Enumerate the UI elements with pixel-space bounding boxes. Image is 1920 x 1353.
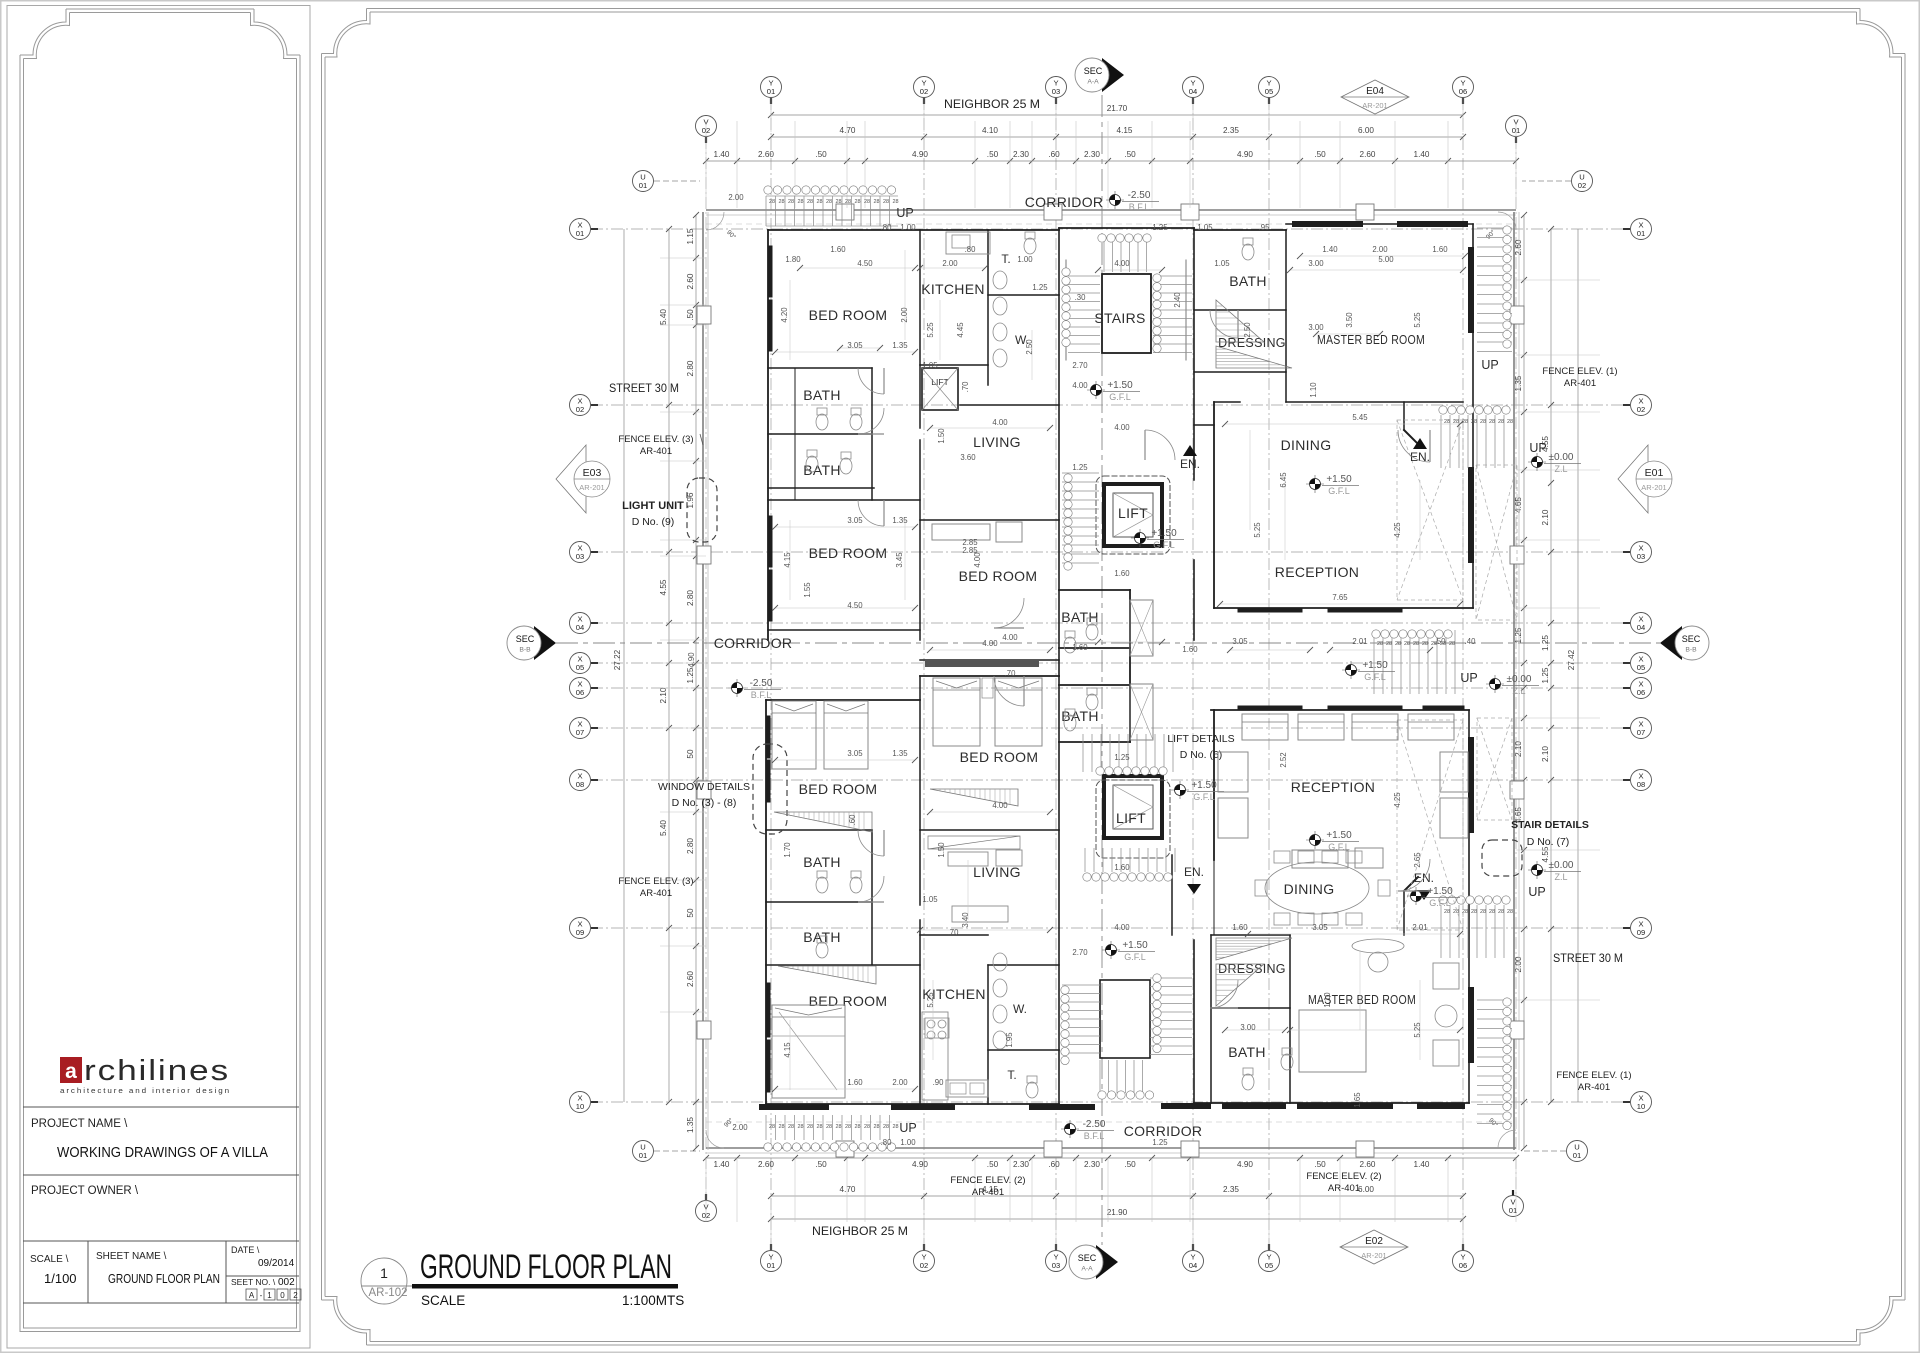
svg-text:GROUND FLOOR PLAN: GROUND FLOOR PLAN xyxy=(108,1272,220,1286)
svg-text:2.00: 2.00 xyxy=(1372,245,1388,254)
svg-text:B.F.L: B.F.L xyxy=(1084,1131,1105,1141)
svg-text:1.50: 1.50 xyxy=(937,842,946,858)
svg-text:E04: E04 xyxy=(1366,86,1384,97)
svg-text:2.85: 2.85 xyxy=(962,546,978,555)
svg-text:FENCE ELEV. (2): FENCE ELEV. (2) xyxy=(950,1175,1025,1186)
svg-text:1.40: 1.40 xyxy=(1414,150,1430,159)
svg-text:1.60: 1.60 xyxy=(1072,643,1088,652)
svg-text:-2.50: -2.50 xyxy=(1128,190,1151,201)
svg-text:3.50: 3.50 xyxy=(1345,312,1354,328)
svg-text:T.: T. xyxy=(1001,252,1010,266)
svg-text:BATH: BATH xyxy=(803,462,841,478)
svg-text:09: 09 xyxy=(576,928,584,937)
svg-text:28: 28 xyxy=(797,199,803,205)
svg-text:2.01: 2.01 xyxy=(1412,923,1427,932)
svg-text:2.60: 2.60 xyxy=(758,150,774,159)
svg-text:02: 02 xyxy=(1637,405,1645,414)
svg-text:.30: .30 xyxy=(1075,293,1087,302)
svg-text:SHEET NAME \: SHEET NAME \ xyxy=(96,1251,167,1262)
svg-text:50: 50 xyxy=(686,749,695,759)
svg-text:Z.L: Z.L xyxy=(1512,686,1525,696)
svg-text:LIFT: LIFT xyxy=(1118,505,1148,521)
svg-text:2.00: 2.00 xyxy=(900,307,909,323)
svg-text:1.70: 1.70 xyxy=(783,842,792,858)
svg-text:FENCE ELEV. (3): FENCE ELEV. (3) xyxy=(618,434,693,445)
svg-text:UP: UP xyxy=(1460,671,1477,685)
svg-text:3.00: 3.00 xyxy=(1240,1023,1256,1032)
svg-text:.70: .70 xyxy=(948,928,960,937)
svg-text:D No. (7): D No. (7) xyxy=(1527,836,1570,848)
svg-text:4.10: 4.10 xyxy=(982,126,998,135)
svg-text:BATH: BATH xyxy=(803,929,841,945)
svg-text:AR-401: AR-401 xyxy=(1564,378,1596,389)
svg-text:SEET NO. \: SEET NO. \ xyxy=(231,1277,276,1287)
svg-text:Z.L: Z.L xyxy=(1554,872,1567,882)
svg-text:RECEPTION: RECEPTION xyxy=(1291,779,1375,795)
svg-text:50: 50 xyxy=(686,908,695,918)
svg-text:1.05: 1.05 xyxy=(922,361,938,370)
svg-text:4.00: 4.00 xyxy=(1114,259,1130,268)
svg-text:4.90: 4.90 xyxy=(1237,150,1253,159)
svg-text:B.F.L: B.F.L xyxy=(751,690,772,700)
svg-text:28: 28 xyxy=(816,199,822,205)
svg-text:DINING: DINING xyxy=(1284,881,1335,897)
svg-text:07: 07 xyxy=(1637,728,1645,737)
svg-text:4.45: 4.45 xyxy=(956,322,965,338)
svg-text:06: 06 xyxy=(1637,688,1645,697)
svg-text:1.25: 1.25 xyxy=(1032,283,1048,292)
svg-text:03: 03 xyxy=(576,552,584,561)
svg-text:2.30: 2.30 xyxy=(1084,150,1100,159)
svg-text:03: 03 xyxy=(1052,87,1060,96)
svg-text:1.40: 1.40 xyxy=(714,150,730,159)
svg-text:1.60: 1.60 xyxy=(1432,245,1448,254)
svg-text:1.35: 1.35 xyxy=(892,516,908,525)
svg-text:4.15: 4.15 xyxy=(1117,126,1133,135)
svg-text:4.00: 4.00 xyxy=(992,801,1008,810)
svg-text:05: 05 xyxy=(1265,1261,1273,1270)
svg-text:BATH: BATH xyxy=(803,387,841,403)
svg-text:4.00: 4.00 xyxy=(1072,381,1088,390)
svg-text:01: 01 xyxy=(1573,1151,1581,1160)
svg-text:4.55: 4.55 xyxy=(659,579,668,595)
svg-text:BED ROOM: BED ROOM xyxy=(809,307,888,323)
svg-text:D No. (6): D No. (6) xyxy=(1180,749,1223,761)
svg-text:WINDOW DETAILS: WINDOW DETAILS xyxy=(658,781,750,793)
svg-text:1.35: 1.35 xyxy=(1514,375,1523,391)
svg-text:1.35: 1.35 xyxy=(892,341,908,350)
svg-text:02: 02 xyxy=(920,1261,928,1270)
svg-text:1.25: 1.25 xyxy=(1152,1138,1168,1147)
svg-text:.50: .50 xyxy=(1314,1160,1326,1169)
svg-text:.60: .60 xyxy=(848,814,857,826)
svg-text:28: 28 xyxy=(1489,909,1495,915)
svg-text:2.01: 2.01 xyxy=(1352,637,1367,646)
svg-text:01: 01 xyxy=(1637,229,1645,238)
svg-text:.70: .70 xyxy=(1005,669,1017,678)
svg-text:+1.50: +1.50 xyxy=(1326,474,1352,485)
svg-text:±0.00: ±0.00 xyxy=(1507,674,1532,685)
svg-text:NEIGHBOR 25 M: NEIGHBOR 25 M xyxy=(944,97,1040,111)
svg-text:27.42: 27.42 xyxy=(1567,649,1576,670)
svg-text:21.70: 21.70 xyxy=(1107,104,1128,113)
svg-text:AR-201: AR-201 xyxy=(579,483,604,492)
svg-text:1.60: 1.60 xyxy=(1182,645,1198,654)
svg-text:06: 06 xyxy=(1459,87,1467,96)
svg-text:.50: .50 xyxy=(987,1160,999,1169)
svg-text:28: 28 xyxy=(778,1124,784,1130)
svg-text:28: 28 xyxy=(854,1124,860,1130)
svg-text:D No. (9): D No. (9) xyxy=(632,516,675,528)
svg-text:4.00: 4.00 xyxy=(1002,633,1018,642)
svg-text:28: 28 xyxy=(1507,419,1513,425)
svg-text:06: 06 xyxy=(1459,1261,1467,1270)
svg-text:+1.50: +1.50 xyxy=(1107,380,1133,391)
svg-text:03: 03 xyxy=(1052,1261,1060,1270)
svg-text:GROUND FLOOR PLAN: GROUND FLOOR PLAN xyxy=(420,1248,672,1286)
svg-text:KITCHEN: KITCHEN xyxy=(921,281,985,297)
svg-text:4.00: 4.00 xyxy=(1114,923,1130,932)
svg-text:SCALE \: SCALE \ xyxy=(30,1254,69,1265)
svg-text:AR-401: AR-401 xyxy=(972,1187,1004,1198)
svg-text:1: 1 xyxy=(380,1265,388,1281)
svg-text:6.45: 6.45 xyxy=(1279,472,1288,488)
svg-text:28: 28 xyxy=(1471,419,1477,425)
svg-text:2.65: 2.65 xyxy=(1413,852,1422,868)
svg-text:±0.00: ±0.00 xyxy=(1549,452,1574,463)
svg-text:02: 02 xyxy=(920,87,928,96)
svg-text:28: 28 xyxy=(873,199,879,205)
svg-text:03: 03 xyxy=(1637,552,1645,561)
svg-text:1.25: 1.25 xyxy=(686,667,695,683)
svg-text:4.90: 4.90 xyxy=(912,150,928,159)
svg-text:.80: .80 xyxy=(881,223,893,232)
svg-text:.50: .50 xyxy=(686,309,695,321)
svg-text:2.40: 2.40 xyxy=(1173,292,1182,308)
svg-text:002: 002 xyxy=(278,1277,295,1288)
svg-text:.70: .70 xyxy=(961,381,970,393)
svg-text:3.05: 3.05 xyxy=(1312,923,1328,932)
svg-text:3.00: 3.00 xyxy=(1308,323,1324,332)
svg-text:architecture and interior desi: architecture and interior design xyxy=(60,1086,231,1095)
svg-text:28: 28 xyxy=(778,199,784,205)
svg-text:5.25: 5.25 xyxy=(926,322,935,338)
svg-text:.50: .50 xyxy=(815,150,827,159)
svg-text:A: A xyxy=(249,1291,255,1300)
svg-text:AR-401: AR-401 xyxy=(640,446,672,457)
svg-text:AR-401: AR-401 xyxy=(640,888,672,899)
svg-text:5.40: 5.40 xyxy=(659,820,668,836)
svg-text:3.05: 3.05 xyxy=(847,516,863,525)
svg-text:2.35: 2.35 xyxy=(1223,126,1239,135)
svg-text:28: 28 xyxy=(835,199,841,205)
svg-text:A-A: A-A xyxy=(1081,1266,1093,1273)
svg-text:.60: .60 xyxy=(1048,1160,1060,1169)
svg-text:1.15: 1.15 xyxy=(686,228,695,244)
svg-text:DRESSING: DRESSING xyxy=(1218,336,1286,350)
svg-text:a: a xyxy=(65,1060,77,1083)
svg-text:+1.50: +1.50 xyxy=(1151,528,1177,539)
svg-text:1.40: 1.40 xyxy=(714,1160,730,1169)
svg-text:28: 28 xyxy=(1471,909,1477,915)
svg-text:28: 28 xyxy=(1480,419,1486,425)
svg-text:1.50: 1.50 xyxy=(937,428,946,444)
svg-text:BATH: BATH xyxy=(1229,273,1267,289)
svg-text:4.90: 4.90 xyxy=(912,1160,928,1169)
svg-text:2.80: 2.80 xyxy=(686,590,695,606)
svg-text:E03: E03 xyxy=(583,467,602,479)
svg-text:+1.50: +1.50 xyxy=(1427,886,1453,897)
svg-text:04: 04 xyxy=(1189,1261,1197,1270)
svg-text:G.F.L: G.F.L xyxy=(1109,392,1131,402)
svg-text:FENCE ELEV. (2): FENCE ELEV. (2) xyxy=(1306,1171,1381,1182)
svg-text:1.40: 1.40 xyxy=(1414,1160,1430,1169)
svg-text:4.90: 4.90 xyxy=(687,652,696,668)
svg-text:1:100MTS: 1:100MTS xyxy=(622,1293,684,1308)
svg-text:PROJECT OWNER \: PROJECT OWNER \ xyxy=(31,1185,139,1197)
svg-text:28: 28 xyxy=(1498,419,1504,425)
svg-text:W.: W. xyxy=(1013,1002,1027,1016)
svg-text:2.30: 2.30 xyxy=(1013,150,1029,159)
svg-text:3.05: 3.05 xyxy=(1232,637,1248,646)
svg-text:28: 28 xyxy=(892,199,898,205)
svg-text:2.70: 2.70 xyxy=(1072,361,1088,370)
svg-text:UP: UP xyxy=(1529,441,1546,455)
svg-text:1.60: 1.60 xyxy=(1114,569,1130,578)
svg-text:UP: UP xyxy=(1481,358,1498,372)
svg-text:05: 05 xyxy=(576,663,584,672)
svg-text:4.65: 4.65 xyxy=(1514,497,1523,513)
svg-text:G.F.L: G.F.L xyxy=(1193,792,1215,802)
svg-text:1.25: 1.25 xyxy=(1541,635,1550,651)
svg-text:04: 04 xyxy=(1189,87,1197,96)
svg-text:rchilines: rchilines xyxy=(84,1055,230,1087)
svg-text:1.25: 1.25 xyxy=(1541,667,1550,683)
svg-text:28: 28 xyxy=(826,199,832,205)
svg-text:3.05: 3.05 xyxy=(847,749,863,758)
svg-text:2.10: 2.10 xyxy=(1514,741,1523,757)
svg-text:BED ROOM: BED ROOM xyxy=(799,781,878,797)
svg-text:G.F.L: G.F.L xyxy=(1364,672,1386,682)
svg-text:BED ROOM: BED ROOM xyxy=(959,568,1038,584)
svg-text:STAIR DETAILS: STAIR DETAILS xyxy=(1511,819,1589,831)
svg-text:28: 28 xyxy=(788,199,794,205)
svg-text:STAIRS: STAIRS xyxy=(1094,310,1145,326)
svg-text:BATH: BATH xyxy=(1061,609,1099,625)
svg-text:2.80: 2.80 xyxy=(686,360,695,376)
svg-text:28: 28 xyxy=(788,1124,794,1130)
svg-text:09: 09 xyxy=(1637,928,1645,937)
svg-text:28: 28 xyxy=(816,1124,822,1130)
svg-text:21.90: 21.90 xyxy=(1107,1208,1128,1217)
svg-text:FENCE ELEV. (1): FENCE ELEV. (1) xyxy=(1542,366,1617,377)
svg-text:4.25: 4.25 xyxy=(1393,792,1402,808)
svg-text:28: 28 xyxy=(845,1124,851,1130)
svg-text:.50: .50 xyxy=(1124,150,1136,159)
svg-text:01: 01 xyxy=(576,229,584,238)
svg-text:BED ROOM: BED ROOM xyxy=(960,749,1039,765)
svg-text:05: 05 xyxy=(1265,87,1273,96)
svg-text:28: 28 xyxy=(1444,909,1450,915)
svg-text:1.80: 1.80 xyxy=(785,255,801,264)
svg-text:28: 28 xyxy=(864,199,870,205)
svg-text:LIGHT UNIT: LIGHT UNIT xyxy=(622,500,684,512)
svg-text:1.25: 1.25 xyxy=(1072,463,1088,472)
svg-text:2.30: 2.30 xyxy=(1084,1160,1100,1169)
svg-text:E02: E02 xyxy=(1365,1236,1383,1247)
svg-text:CORRIDOR: CORRIDOR xyxy=(1124,1123,1203,1139)
svg-text:4.25: 4.25 xyxy=(1393,522,1402,538)
svg-text:PROJECT NAME \: PROJECT NAME \ xyxy=(31,1118,128,1130)
svg-text:BATH: BATH xyxy=(803,854,841,870)
svg-text:.50: .50 xyxy=(1435,637,1447,646)
svg-text:.80: .80 xyxy=(965,245,977,254)
svg-text:-2.50: -2.50 xyxy=(750,678,773,689)
svg-text:.50: .50 xyxy=(987,150,999,159)
svg-text:STREET 30 M: STREET 30 M xyxy=(1553,951,1623,965)
svg-text:LIFT DETAILS: LIFT DETAILS xyxy=(1167,733,1234,745)
svg-text:BATH: BATH xyxy=(1228,1044,1266,1060)
svg-text:B-B: B-B xyxy=(519,647,531,654)
svg-text:1.05: 1.05 xyxy=(1197,223,1213,232)
svg-text:G.F.L: G.F.L xyxy=(1153,540,1175,550)
svg-text:2.60: 2.60 xyxy=(1514,239,1523,255)
svg-text:28: 28 xyxy=(807,199,813,205)
svg-text:28: 28 xyxy=(797,1124,803,1130)
svg-text:B.F.L: B.F.L xyxy=(1129,202,1150,212)
svg-text:28: 28 xyxy=(1449,641,1455,647)
svg-text:28: 28 xyxy=(1386,641,1392,647)
svg-text:4.20: 4.20 xyxy=(780,307,789,323)
svg-text:28: 28 xyxy=(873,1124,879,1130)
svg-text:28: 28 xyxy=(854,199,860,205)
svg-text:05: 05 xyxy=(1637,663,1645,672)
svg-text:2.10: 2.10 xyxy=(1541,509,1550,525)
svg-text:DINING: DINING xyxy=(1281,437,1332,453)
svg-text:1.25: 1.25 xyxy=(1114,753,1130,762)
svg-text:28: 28 xyxy=(883,1124,889,1130)
svg-text:UP: UP xyxy=(896,206,913,220)
svg-text:+1.50: +1.50 xyxy=(1326,830,1352,841)
svg-text:.80: .80 xyxy=(881,1138,893,1147)
svg-text:BED ROOM: BED ROOM xyxy=(809,993,888,1009)
svg-text:28: 28 xyxy=(1480,909,1486,915)
svg-text:1.05: 1.05 xyxy=(922,895,938,904)
svg-text:.50: .50 xyxy=(1314,150,1326,159)
svg-text:Z.L: Z.L xyxy=(1554,464,1567,474)
svg-text:-: - xyxy=(260,1291,263,1300)
svg-text:4.70: 4.70 xyxy=(840,1185,856,1194)
svg-text:A-A: A-A xyxy=(1087,79,1099,86)
svg-text:.90: .90 xyxy=(933,1078,945,1087)
svg-text:.50: .50 xyxy=(1124,1160,1136,1169)
svg-text:1.60: 1.60 xyxy=(1114,863,1130,872)
svg-text:1.25: 1.25 xyxy=(1152,223,1168,232)
svg-text:27.22: 27.22 xyxy=(613,649,622,670)
svg-text:SCALE: SCALE xyxy=(421,1293,465,1308)
svg-text:06: 06 xyxy=(576,688,584,697)
svg-text:G.F.L: G.F.L xyxy=(1429,898,1451,908)
svg-text:2.60: 2.60 xyxy=(758,1160,774,1169)
svg-text:4.50: 4.50 xyxy=(857,259,873,268)
svg-text:E01: E01 xyxy=(1645,467,1664,479)
svg-text:2.00: 2.00 xyxy=(942,259,958,268)
svg-text:LIFT: LIFT xyxy=(1116,810,1146,826)
svg-text:28: 28 xyxy=(864,1124,870,1130)
svg-text:1/100: 1/100 xyxy=(44,1271,77,1286)
svg-text:4.00: 4.00 xyxy=(982,639,998,648)
svg-text:1: 1 xyxy=(267,1291,272,1300)
svg-text:02: 02 xyxy=(576,405,584,414)
svg-text:1.00: 1.00 xyxy=(900,223,916,232)
svg-text:1.10: 1.10 xyxy=(1323,992,1332,1008)
svg-text:4.15: 4.15 xyxy=(783,1042,792,1058)
svg-text:2.60: 2.60 xyxy=(1360,1160,1376,1169)
svg-text:28: 28 xyxy=(1413,641,1419,647)
svg-text:28: 28 xyxy=(1489,419,1495,425)
svg-text:.60: .60 xyxy=(1048,150,1060,159)
svg-text:SEC: SEC xyxy=(516,634,535,644)
svg-text:07: 07 xyxy=(576,728,584,737)
svg-text:1.60: 1.60 xyxy=(1232,923,1248,932)
svg-text:5.25: 5.25 xyxy=(1253,522,1262,538)
svg-text:10: 10 xyxy=(1637,1102,1645,1111)
svg-text:3.40: 3.40 xyxy=(961,912,970,928)
svg-text:FENCE ELEV. (1): FENCE ELEV. (1) xyxy=(1556,1070,1631,1081)
svg-text:28: 28 xyxy=(883,199,889,205)
svg-text:02: 02 xyxy=(1578,181,1586,190)
svg-text:2.00: 2.00 xyxy=(732,1123,748,1132)
svg-text:EN.: EN. xyxy=(1184,865,1204,879)
svg-text:1.65: 1.65 xyxy=(1353,1092,1362,1108)
svg-text:1.05: 1.05 xyxy=(1214,259,1230,268)
svg-text:1.95: 1.95 xyxy=(1005,1032,1014,1048)
svg-text:2.50: 2.50 xyxy=(1243,322,1252,338)
svg-text:01: 01 xyxy=(767,1261,775,1270)
svg-text:1.40: 1.40 xyxy=(1322,245,1338,254)
svg-text:BED ROOM: BED ROOM xyxy=(809,545,888,561)
svg-text:2.00: 2.00 xyxy=(728,193,744,202)
svg-text:-2.50: -2.50 xyxy=(1083,1119,1106,1130)
svg-text:5.25: 5.25 xyxy=(926,992,935,1008)
svg-text:G.F.L: G.F.L xyxy=(1124,952,1146,962)
svg-text:4.50: 4.50 xyxy=(847,601,863,610)
svg-text:2.60: 2.60 xyxy=(686,971,695,987)
svg-text:B-B: B-B xyxy=(1685,647,1697,654)
svg-text:28: 28 xyxy=(826,1124,832,1130)
svg-text:+1.50: +1.50 xyxy=(1122,940,1148,951)
svg-text:AR-201: AR-201 xyxy=(1361,1251,1386,1260)
svg-text:1.10: 1.10 xyxy=(1309,382,1318,398)
svg-text:28: 28 xyxy=(1498,909,1504,915)
svg-text:28: 28 xyxy=(1377,641,1383,647)
svg-text:28: 28 xyxy=(1507,909,1513,915)
svg-text:2.10: 2.10 xyxy=(1541,746,1550,762)
svg-text:01: 01 xyxy=(639,181,647,190)
svg-text:2.52: 2.52 xyxy=(1279,752,1288,767)
svg-text:CORRIDOR: CORRIDOR xyxy=(714,635,793,651)
svg-text:5.25: 5.25 xyxy=(1413,312,1422,328)
svg-text:AR-201: AR-201 xyxy=(1641,483,1666,492)
svg-text:+1.50: +1.50 xyxy=(1362,660,1388,671)
svg-text:.50: .50 xyxy=(815,1160,827,1169)
svg-text:04: 04 xyxy=(1637,623,1645,632)
svg-text:4.70: 4.70 xyxy=(840,126,856,135)
svg-text:D No. (3) - (8): D No. (3) - (8) xyxy=(672,797,737,809)
svg-text:28: 28 xyxy=(892,1124,898,1130)
svg-text:2.50: 2.50 xyxy=(1025,339,1034,355)
svg-text:28: 28 xyxy=(1422,641,1428,647)
